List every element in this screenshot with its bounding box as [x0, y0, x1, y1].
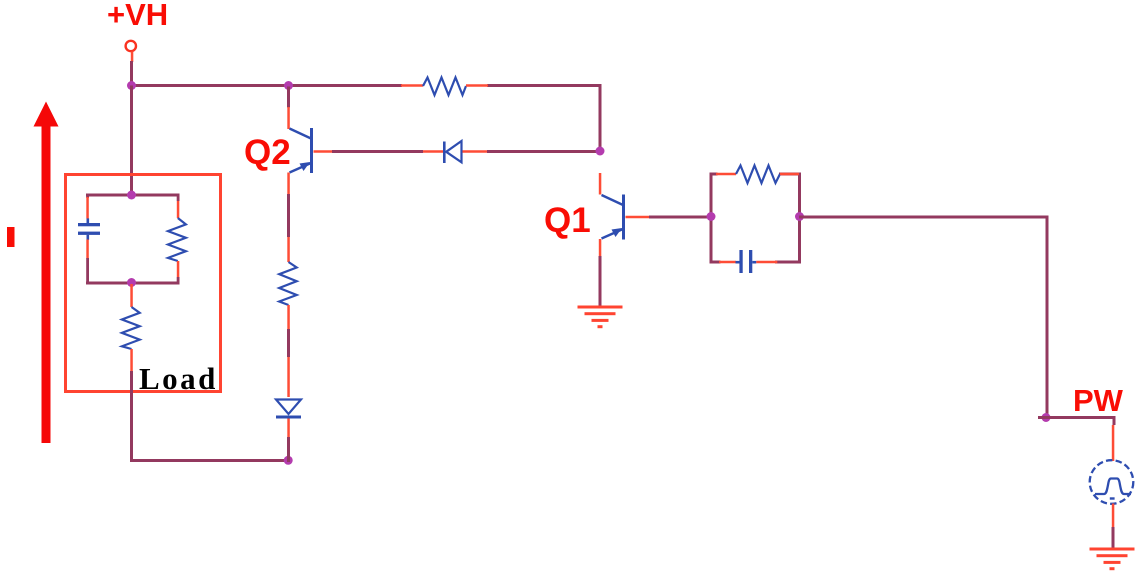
node junction at Q1 collector [596, 147, 605, 156]
node junction load top [127, 191, 136, 200]
resistor R-load-parallel bottom pin [177, 261, 180, 277]
resistor R-load-series top pin [130, 284, 133, 307]
node junction bottom return [284, 456, 293, 465]
ground symbol at source [1090, 548, 1135, 571]
diode D2 bottom pin [287, 419, 290, 438]
resistor R1 right pin [466, 84, 488, 87]
capacitor C1 plates [736, 250, 757, 273]
label I [7, 227, 15, 247]
svg-text:+VH: +VH [107, 0, 168, 32]
node junction at VH rail / load tap [127, 81, 136, 90]
transistor Q2 base pin [314, 150, 333, 153]
current arrow I [34, 102, 59, 444]
resistor R2 top pin [287, 237, 290, 262]
wire diode D1 to node under R1 [487, 150, 600, 153]
resistor R2 bottom pin [287, 305, 290, 329]
wire PW horizontal [1038, 416, 1116, 419]
diode D2 symbol (vertical, pointing down) [276, 400, 301, 419]
wire load bottom exit [130, 371, 133, 462]
svg-text:Load: Load [139, 361, 218, 396]
diode D1 right pin [463, 150, 488, 153]
resistor R-load-parallel zigzag [168, 218, 186, 261]
ground symbol at Q1 emitter [578, 306, 623, 329]
transistor Q2 collector wire [287, 87, 290, 108]
wire bottom return (load to diode) [130, 459, 290, 462]
wire load bottom rail [86, 282, 180, 285]
resistor R-load-series zigzag [122, 307, 140, 349]
node junction RC left [707, 212, 716, 221]
diode D2 top pin [287, 357, 290, 397]
capacitor bottom pin [86, 240, 89, 259]
wire load top rail [86, 194, 180, 197]
wire left branch upper (to capacitor) [86, 195, 89, 198]
wire left branch lower [86, 258, 89, 284]
wire top rail (VH rail) [130, 84, 402, 87]
wire VH rail down to load [130, 86, 133, 197]
wire from +VH down to top rail [130, 61, 133, 85]
resistor R3 zigzag [736, 166, 780, 184]
pin stub below +VH terminal [131, 52, 134, 63]
resistor R2 zigzag (vertical below Q2) [279, 262, 297, 305]
transistor Q1 emitter pin [599, 239, 602, 256]
wire Q1 emitter to ground [599, 256, 602, 306]
wire right branch lower [177, 277, 180, 284]
svg-text:PW: PW [1073, 383, 1124, 418]
svg-text:Q2: Q2 [244, 133, 291, 172]
RC network right vertical wire [798, 173, 801, 263]
node junction at PW corner [1042, 413, 1051, 422]
transistor Q2 symbol [290, 128, 314, 173]
resistor R-load-parallel top pin [177, 201, 180, 218]
transistor Q2 collector pin [287, 107, 290, 129]
diode D1 symbol (horizontal, pointing left) [443, 141, 462, 163]
wire R2 to diode D2 [287, 329, 290, 357]
wire RC network to right corner [799, 216, 1049, 219]
node junction RC right [795, 212, 804, 221]
svg-text:Q1: Q1 [544, 201, 591, 240]
power terminal +VH ring [126, 41, 136, 51]
capacitor top pin [86, 197, 89, 219]
wire Q2 base to diode [332, 150, 423, 153]
transistor Q2 emitter pin [287, 173, 290, 195]
source bottom pin [1112, 504, 1115, 528]
wire right branch upper (to load resistor) [177, 195, 180, 201]
wire diode D2 to bottom return [287, 437, 290, 462]
wire right vertical drop [1046, 217, 1049, 419]
wire RC bottom branch [710, 261, 721, 264]
resistor R-load-series bottom pin [130, 349, 133, 371]
resistor R1 zigzag (top) [423, 78, 466, 96]
transistor Q1 symbol [602, 195, 626, 240]
capacitor C1 right pin [756, 261, 777, 264]
resistor R3 right pin [780, 173, 799, 176]
node junction at VH rail / Q2 collector [284, 81, 293, 90]
pulse source V1 [1090, 460, 1134, 504]
source top pin [1112, 425, 1115, 461]
transistor Q1 collector pin [599, 173, 602, 195]
wire source to ground [1112, 527, 1115, 548]
resistor R1 left pin [401, 84, 423, 87]
resistor R3 left pin [716, 173, 736, 176]
capacitor C1 left pin [719, 261, 736, 264]
wire Q2 emitter down [287, 194, 290, 237]
capacitor C-load symbol [78, 218, 100, 239]
load box outline [66, 175, 221, 392]
RC network left vertical wire [710, 173, 713, 263]
wire down to source [1113, 417, 1116, 425]
node junction load bottom [127, 278, 136, 287]
wire top rail right corner down [599, 86, 602, 153]
wire RC top branch [710, 173, 718, 176]
diode D1 anode-side pin (left) [423, 150, 444, 153]
wire Q1 base to RC network [649, 216, 713, 219]
transistor Q1 base pin [626, 216, 650, 219]
